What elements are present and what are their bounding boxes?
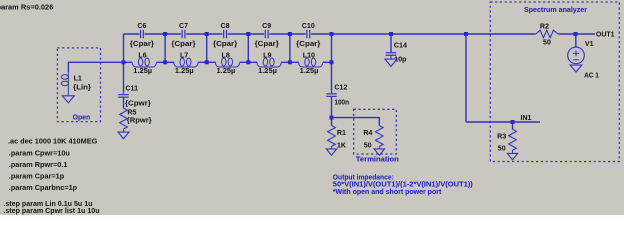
svg-text:.param Cparbnc=1p: .param Cparbnc=1p (9, 183, 78, 192)
wire (248, 33, 290, 35)
svg-text:.step param Cpwr list 1u 10u: .step param Cpwr list 1u 10u (3, 207, 99, 215)
junction inductor rail 1 (163, 60, 167, 64)
svg-text:50: 50 (498, 145, 506, 153)
capacitor C11 (118, 85, 151, 108)
junction inductor rail 5 (330, 60, 334, 64)
svg-text:L6: L6 (138, 51, 146, 59)
svg-text:Output impedance:: Output impedance: (333, 174, 394, 181)
wire (123, 129, 125, 132)
svg-text:1.25µ: 1.25µ (175, 67, 194, 75)
junction N001 (122, 60, 126, 64)
voltage source V1 (568, 40, 599, 79)
svg-text:1K: 1K (337, 142, 347, 150)
wire (378, 146, 380, 149)
wire (240, 61, 258, 63)
ground (507, 153, 517, 159)
svg-text:.param Cpar=1p: .param Cpar=1p (9, 171, 65, 180)
node junction (389, 32, 393, 36)
annotation box Open (57, 48, 100, 122)
wire (332, 117, 380, 119)
wire (466, 121, 540, 123)
annotation box Termination (354, 109, 399, 163)
resistor R3 (497, 129, 516, 152)
junction inductor rail 2 (205, 60, 209, 64)
svg-text:OUT1: OUT1 (596, 31, 615, 38)
node junction (511, 120, 515, 124)
svg-text:C10: C10 (302, 22, 315, 30)
svg-text:.ac dec 1000 10K 410MEG: .ac dec 1000 10K 410MEG (8, 136, 98, 145)
svg-text:C9: C9 (262, 22, 271, 30)
svg-text:{Lin}: {Lin} (73, 83, 91, 91)
wire (331, 96, 333, 125)
svg-text:{Cpar}: {Cpar} (255, 40, 279, 48)
ground (62, 96, 74, 103)
svg-text:50: 50 (543, 39, 551, 47)
junction top rail 5 (330, 32, 334, 36)
svg-text:C6: C6 (137, 22, 146, 30)
svg-text:R5: R5 (127, 108, 136, 116)
wire (575, 34, 577, 47)
capacitor C6 (130, 22, 154, 48)
wire (123, 62, 125, 93)
capacitor C7 (171, 22, 195, 48)
svg-text:IN1: IN1 (521, 115, 532, 122)
svg-text:R1: R1 (337, 129, 346, 137)
node junction (464, 32, 468, 36)
node junction (330, 116, 334, 120)
inductor L6 (132, 51, 156, 75)
svg-text:{Cpar}: {Cpar} (130, 40, 154, 48)
svg-text:.param Rpwr=0.1: .param Rpwr=0.1 (9, 160, 68, 169)
inductor L8 (215, 51, 239, 75)
svg-text:{Cpar}: {Cpar} (171, 40, 195, 48)
wire (198, 61, 216, 63)
svg-text:{Cpwr}: {Cpwr} (125, 99, 151, 107)
svg-text:C12: C12 (334, 84, 347, 92)
inductor L7 (174, 51, 198, 75)
wire (390, 34, 392, 52)
svg-text:{Rpwr}: {Rpwr} (127, 117, 152, 125)
ground (118, 132, 129, 139)
svg-text:1.25µ: 1.25µ (258, 67, 277, 75)
svg-text:50: 50 (364, 142, 372, 150)
wire (378, 117, 380, 126)
svg-text:L8: L8 (222, 51, 230, 59)
junction top rail 4 (288, 32, 292, 36)
wire (157, 61, 175, 63)
annotation Output impedance (333, 174, 473, 196)
wire (123, 97, 125, 108)
svg-text:L1: L1 (74, 74, 82, 82)
wire (68, 61, 132, 63)
resistor R4 (363, 125, 383, 149)
wire (331, 33, 333, 62)
wire (512, 150, 514, 153)
svg-text:AC 1: AC 1 (584, 72, 599, 80)
svg-text:R3: R3 (497, 132, 506, 140)
wire (67, 62, 69, 72)
node junction (574, 32, 578, 36)
ground (374, 149, 384, 155)
svg-text:C11: C11 (125, 85, 138, 93)
inductor L1 (61, 72, 91, 96)
wire (465, 34, 467, 122)
capacitor C10 (296, 22, 320, 48)
svg-text:C8: C8 (221, 22, 230, 30)
wire (558, 33, 595, 35)
inductor L10 (299, 51, 323, 75)
svg-text:.param Cpwr=10u: .param Cpwr=10u (9, 148, 70, 157)
junction top rail 3 (246, 32, 250, 36)
svg-text:R4: R4 (363, 129, 372, 137)
svg-text:1.25µ: 1.25µ (133, 67, 152, 75)
svg-text:.param Rs=0.026: .param Rs=0.026 (0, 3, 53, 12)
junction top rail 1 (163, 32, 167, 36)
svg-text:V1: V1 (585, 40, 594, 48)
resistor R2 (536, 23, 558, 47)
wire (289, 33, 291, 62)
svg-text:L10: L10 (303, 51, 315, 59)
resistor R5 (120, 108, 152, 129)
svg-text:C14: C14 (394, 41, 407, 49)
svg-text:1.25µ: 1.25µ (300, 67, 319, 75)
resistor R1 (328, 125, 347, 149)
wire (512, 122, 514, 129)
svg-text:{Cpar}: {Cpar} (296, 40, 320, 48)
svg-text:1.25µ: 1.25µ (217, 67, 236, 75)
svg-text:*With open and short power por: *With open and short power port (333, 189, 442, 196)
svg-text:{Cpar}: {Cpar} (213, 40, 237, 48)
capacitor C8 (213, 22, 237, 48)
svg-text:Termination: Termination (356, 155, 399, 164)
wire (332, 33, 536, 35)
wire (331, 146, 333, 149)
wire (323, 61, 332, 63)
svg-text:50*V(IN1)/V(OUT1)/(1-2*V(IN1)/: 50*V(IN1)/V(OUT1)/(1-2*V(IN1)/V(OUT1)) (333, 182, 473, 189)
svg-text:Spectrum analyzer: Spectrum analyzer (524, 5, 587, 14)
junction inductor rail 3 (246, 60, 250, 64)
wire (281, 61, 299, 63)
annotation box Spectrum analyzer (490, 2, 619, 162)
wire (207, 33, 249, 35)
inductor L9 (257, 51, 281, 75)
wire (124, 33, 166, 35)
wire (164, 33, 166, 62)
wire (290, 33, 332, 35)
svg-text:C7: C7 (179, 22, 188, 30)
svg-text:L9: L9 (263, 51, 271, 59)
ground (385, 59, 397, 66)
svg-text:R2: R2 (540, 23, 549, 31)
wire (165, 33, 207, 35)
wire (247, 33, 249, 62)
wire (123, 34, 125, 62)
wire (331, 62, 333, 93)
wire (206, 33, 208, 62)
svg-text:100n: 100n (334, 98, 349, 106)
capacitor C14 (386, 41, 407, 63)
ground (570, 65, 582, 72)
ground (326, 149, 336, 155)
svg-text:Open: Open (73, 114, 91, 121)
junction inductor rail 4 (288, 60, 292, 64)
capacitor C9 (255, 22, 279, 48)
junction top rail 2 (205, 32, 209, 36)
wire (390, 55, 392, 59)
capacitor C12 (326, 84, 349, 107)
svg-text:L7: L7 (180, 51, 188, 59)
